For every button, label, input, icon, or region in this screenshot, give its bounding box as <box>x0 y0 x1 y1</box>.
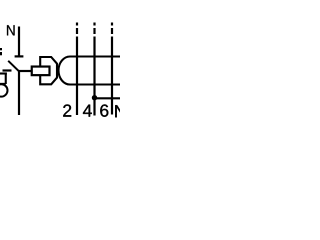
wire N pole lower <box>18 71 20 116</box>
wire test circuit lower <box>95 97 122 99</box>
current transformer CT toroid (stadium, cropped right) <box>59 57 122 85</box>
terminal label 6 <box>100 104 108 116</box>
trip relay coil rectangle <box>32 67 50 76</box>
wire pole 3 <box>111 37 113 115</box>
wire test contact stub <box>3 69 12 71</box>
wire pole 1 <box>76 37 78 116</box>
node fixed contact T-bar <box>15 55 24 57</box>
terminal label 4 <box>83 105 92 117</box>
terminal label 2 <box>63 104 71 116</box>
junction dot on pole 2 <box>92 95 97 100</box>
terminal label N <box>115 105 125 117</box>
wire pole 3 dashes <box>111 23 113 26</box>
wire mechanical link dashes (left edge) <box>0 48 2 50</box>
test button T circle (clipped at left edge) <box>0 84 8 96</box>
wire test resistor top bar <box>0 72 7 74</box>
wire pole 2 <box>93 37 95 116</box>
wire to trip relay <box>18 70 32 72</box>
trip relay U1 body (chamfered box) <box>40 57 57 84</box>
switch SW1 blade (N pole, open) <box>8 61 19 72</box>
wire N pole upper <box>18 27 20 56</box>
node N label top <box>7 25 15 35</box>
wire pole 2 dashes <box>93 23 95 26</box>
wire pole 1 dashes <box>76 23 78 26</box>
